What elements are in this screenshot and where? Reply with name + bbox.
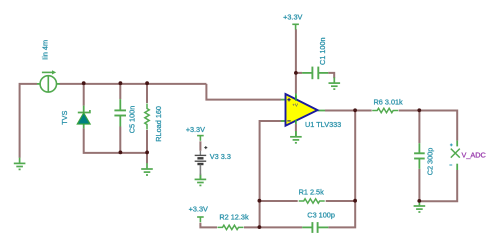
svg-text:Iin 4m: Iin 4m <box>41 40 50 60</box>
svg-text:TVS: TVS <box>60 110 69 124</box>
svg-text:+V: +V <box>292 102 299 107</box>
svg-text:RLoad 160: RLoad 160 <box>154 106 163 142</box>
svg-text:C3 100p: C3 100p <box>307 211 335 220</box>
svg-text:V3 3.3: V3 3.3 <box>210 152 231 161</box>
svg-text:C5 100n: C5 100n <box>128 106 137 134</box>
svg-text:R1 2.5k: R1 2.5k <box>299 187 324 196</box>
svg-text:+3.3V: +3.3V <box>283 13 302 22</box>
svg-text:C2 300p: C2 300p <box>426 148 435 176</box>
svg-text:C1 100n: C1 100n <box>318 37 327 65</box>
svg-text:R2 12.3k: R2 12.3k <box>219 212 249 221</box>
svg-text:+3.3V: +3.3V <box>189 205 208 214</box>
svg-text:R6 3.01k: R6 3.01k <box>374 98 404 107</box>
svg-text:+3.3V: +3.3V <box>186 125 205 134</box>
svg-text:V_ADC: V_ADC <box>462 150 486 159</box>
svg-text:U1 TLV333: U1 TLV333 <box>305 120 341 129</box>
